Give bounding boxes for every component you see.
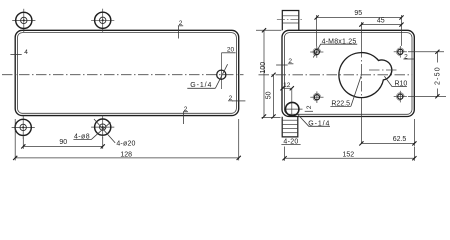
counterbore hole top-middle <box>91 19 114 21</box>
svg-text:45: 45 <box>377 17 385 24</box>
svg-text:4: 4 <box>24 49 28 56</box>
svg-text:95: 95 <box>354 10 362 17</box>
label 4-diam20 <box>94 119 115 143</box>
tapped hole M8 top-left <box>310 51 323 53</box>
left view outer outline <box>15 30 239 115</box>
svg-text:128: 128 <box>120 152 132 159</box>
svg-text:100: 100 <box>260 62 267 74</box>
tapped hole M8 bottom-right <box>394 96 407 98</box>
port circle G-1/4 right view <box>291 88 293 116</box>
tapped hole M8 bottom-left <box>310 96 323 98</box>
cavity outline R22.5 with R10 lobe <box>339 53 392 98</box>
svg-text:4-ø20: 4-ø20 <box>116 141 135 148</box>
top boss port <box>282 11 299 31</box>
dimension 95 <box>316 15 318 46</box>
svg-text:90: 90 <box>59 139 67 146</box>
leader R22.5 <box>351 75 362 106</box>
leader R10 <box>384 76 391 86</box>
bottom boss port <box>282 117 298 137</box>
svg-text:2: 2 <box>306 105 313 109</box>
leader G-1/4 left view <box>215 64 227 88</box>
dimension 2-50 right side <box>408 51 444 53</box>
dimension 100 <box>256 29 281 31</box>
horizontal centerline left view <box>2 74 244 76</box>
svg-text:G-1/4: G-1/4 <box>190 82 212 89</box>
vertical centerline through cavity <box>360 22 362 47</box>
counterbore hole bottom-left <box>12 126 35 128</box>
tapped hole M8 top-right <box>394 51 407 53</box>
dimension 50 <box>273 75 275 117</box>
right view outer outline <box>282 30 414 116</box>
svg-text:2-50: 2-50 <box>434 66 441 85</box>
svg-text:62.5: 62.5 <box>393 136 407 143</box>
left view inner chamfer outline <box>18 33 237 114</box>
dimension 45 <box>361 24 401 26</box>
right view inner chamfer outline <box>284 33 412 115</box>
svg-text:50: 50 <box>266 91 273 99</box>
dimension 128 <box>14 119 16 160</box>
dimension 90 <box>22 137 24 149</box>
horizontal centerline right view <box>259 74 413 76</box>
dimension 152 <box>284 147 286 161</box>
counterbore hole top-left <box>12 19 35 21</box>
svg-text:152: 152 <box>342 151 354 158</box>
leader G-1/4 right view <box>297 114 309 127</box>
lobe centerline <box>369 69 397 71</box>
thickness label 4 left edge <box>10 53 21 55</box>
dimension 62.5 <box>413 119 415 146</box>
counterbore hole bottom-middle <box>91 126 114 128</box>
port circle G-1/4 left view <box>217 70 226 79</box>
